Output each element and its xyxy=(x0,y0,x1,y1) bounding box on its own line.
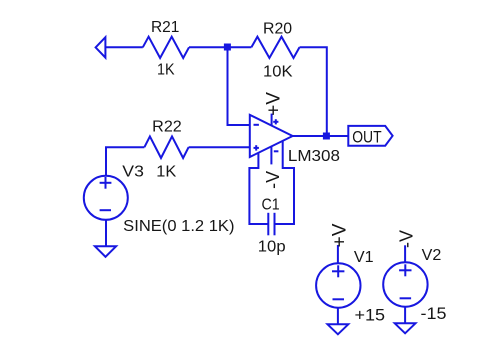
net label -V at V2 xyxy=(397,230,417,248)
value -15 of V2 xyxy=(421,304,447,323)
wire V1 bottom to ground xyxy=(337,308,339,325)
junction node A xyxy=(224,44,231,51)
value 1K of R21 xyxy=(157,62,175,79)
wire port to R21 xyxy=(105,46,142,48)
op-amp V+ pin plus marker xyxy=(273,119,278,124)
junction node OUT xyxy=(323,133,330,140)
op-amp V- power pin stub xyxy=(270,147,272,165)
value +15 of V1 xyxy=(355,305,386,324)
wire R21 to junction xyxy=(189,46,228,48)
svg-text:R21: R21 xyxy=(151,19,179,36)
wire R22 to non-inverting input xyxy=(189,146,250,148)
V3 minus marker xyxy=(100,209,111,211)
op-amp V+ power pin stub xyxy=(271,114,273,126)
wire op-amp output xyxy=(293,135,349,137)
V1 minus marker xyxy=(333,298,345,300)
svg-text:SINE(0 1.2 1K): SINE(0 1.2 1K) xyxy=(123,218,234,235)
wire C1 right to balance pin 8 xyxy=(275,141,294,224)
svg-text:OUT: OUT xyxy=(352,127,381,146)
op-amp U1 triangle xyxy=(250,115,293,157)
net label -V at op-amp xyxy=(263,171,283,189)
op-amp V- pin minus marker xyxy=(274,150,279,152)
V2 minus marker xyxy=(400,297,412,299)
svg-text:R20: R20 xyxy=(263,20,292,37)
value SINE of V3 xyxy=(123,218,234,235)
svg-text:V2: V2 xyxy=(422,247,442,264)
svg-text:V1: V1 xyxy=(354,249,374,266)
svg-text:V3: V3 xyxy=(122,163,144,180)
wire -V label stub to V2 top xyxy=(404,245,406,262)
ground under V1 xyxy=(328,324,349,334)
value 1K of R22 xyxy=(156,164,176,181)
svg-text:-V: -V xyxy=(397,230,417,248)
net label +V at op-amp xyxy=(264,92,285,116)
label V3 xyxy=(122,163,144,180)
ground under V3 xyxy=(95,246,116,256)
label R20 xyxy=(263,20,292,37)
svg-text:LM308: LM308 xyxy=(288,148,340,165)
voltage source V1 circle xyxy=(316,263,360,307)
capacitor C1 xyxy=(268,213,274,236)
port OUT pentagon xyxy=(348,126,392,146)
svg-text:+V: +V xyxy=(330,223,351,247)
V1 plus marker xyxy=(332,265,344,277)
voltage source V3 circle xyxy=(84,176,128,220)
wire V+ label stub to V1 top xyxy=(337,245,339,263)
wire V3 top to R22 xyxy=(106,147,144,176)
resistor R20 xyxy=(251,37,299,58)
svg-text:-15: -15 xyxy=(421,304,447,323)
label V2 xyxy=(422,247,442,264)
label R21 xyxy=(151,19,179,36)
svg-text:1K: 1K xyxy=(156,164,176,181)
resistor R22 xyxy=(144,136,188,158)
label C1 xyxy=(262,197,280,214)
value 10p of C1 xyxy=(258,239,286,256)
wire junction to R20 xyxy=(228,46,252,48)
svg-text:1K: 1K xyxy=(157,62,175,79)
wire V3 bottom to ground xyxy=(105,220,107,247)
V3 plus marker xyxy=(100,177,112,189)
svg-text:+V: +V xyxy=(264,92,285,116)
svg-text:10K: 10K xyxy=(263,64,293,81)
svg-text:C1: C1 xyxy=(262,197,280,214)
wire balance pin 1 to C1 left xyxy=(249,153,267,224)
V2 plus marker xyxy=(399,264,411,276)
op-amp inverting pin marker xyxy=(254,124,259,126)
svg-text:+15: +15 xyxy=(355,305,386,324)
label V1 xyxy=(354,249,374,266)
label R22 xyxy=(152,119,182,136)
net label OUT xyxy=(352,127,381,146)
op-amp non-inverting pin marker xyxy=(254,145,259,150)
port arrow (left input) xyxy=(96,37,106,57)
net label +V at V1 xyxy=(330,223,351,247)
svg-text:10p: 10p xyxy=(258,239,286,256)
svg-text:-V: -V xyxy=(263,171,283,189)
resistor R21 xyxy=(143,37,189,58)
ground under V2 xyxy=(395,323,416,333)
value 10K of R20 xyxy=(263,64,293,81)
wire R20 to output column xyxy=(300,47,327,136)
wire junction down to inverting input xyxy=(228,47,250,125)
wire V2 bottom to ground xyxy=(404,307,406,324)
svg-text:R22: R22 xyxy=(152,119,182,136)
value LM308 of U1 xyxy=(288,148,340,165)
voltage source V2 circle xyxy=(383,262,427,306)
